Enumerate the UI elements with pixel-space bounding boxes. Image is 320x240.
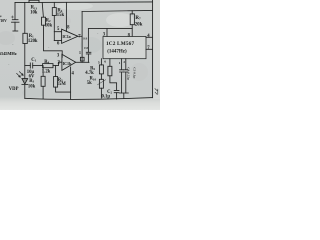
svg-text:/10V: /10V [0,19,7,23]
svg-text:R3: R3 [29,79,34,84]
svg-text:0.1µ: 0.1µ [102,94,111,99]
svg-text:20k: 20k [135,22,143,27]
svg-text:5: 5 [98,61,100,65]
svg-text:15k: 15k [57,13,65,18]
svg-text:R4: R4 [44,60,49,65]
svg-text:6545MHz: 6545MHz [0,51,17,56]
svg-text:10k: 10k [45,24,53,29]
svg-text:1C2 LM567: 1C2 LM567 [106,41,134,47]
svg-text:C4 0.22µ: C4 0.22µ [127,67,131,80]
svg-text:IC1b: IC1b [63,61,72,66]
svg-text:0µ: 0µ [0,14,1,18]
svg-text:C1: C1 [31,58,36,63]
svg-text:4.7k: 4.7k [85,71,94,76]
svg-text:5k: 5k [87,81,92,86]
svg-text:1: 1 [119,61,121,65]
svg-text:C3 0.1µ: C3 0.1µ [133,67,137,78]
svg-text:10k: 10k [30,11,38,16]
svg-text:15M: 15M [57,82,67,87]
svg-text:2: 2 [123,60,125,64]
svg-text:1M: 1M [84,46,89,50]
svg-text:(1447Hz): (1447Hz) [107,49,127,54]
svg-text:1.2k: 1.2k [42,70,51,75]
svg-text:1: 1 [79,51,81,55]
svg-text:VDP: VDP [9,87,19,92]
svg-text:10k: 10k [28,85,36,90]
svg-text:R8: R8 [83,37,87,41]
svg-text:IC1a: IC1a [62,34,70,39]
svg-text:R7: R7 [135,16,141,21]
svg-text:120k: 120k [28,39,38,44]
svg-text:6: 6 [104,59,106,63]
